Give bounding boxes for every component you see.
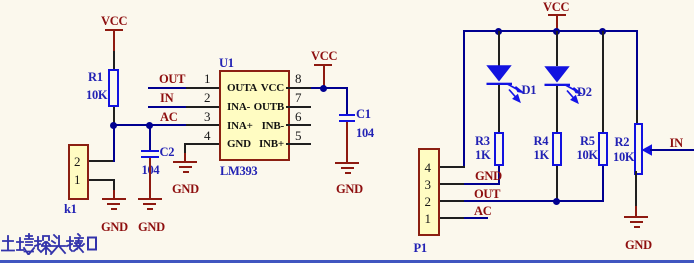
node junction rail/VCC/D2: [553, 28, 560, 35]
net label IN: [160, 92, 173, 105]
resistor R1: [108, 69, 119, 107]
LED D2: [542, 64, 574, 87]
wire rail to R5: [602, 31, 604, 132]
title text (Chinese) 土壤探头接口: [1, 233, 97, 255]
pin stub 6: [286, 124, 311, 126]
wire bus down to k1 pin2: [113, 126, 115, 162]
potentiometer R2: [634, 123, 643, 175]
net label GND (P1): [475, 170, 502, 183]
net label OUT: [159, 73, 185, 86]
pin number 5: [295, 129, 302, 142]
node junction rail/D1: [495, 28, 502, 35]
pin number 8: [295, 72, 302, 85]
power VCC (middle): [311, 50, 337, 63]
connector k1 body: [68, 144, 89, 200]
wire U1 pin8 to VCC and C1: [286, 87, 311, 89]
wire P1 pin2 OUT net: [440, 200, 464, 202]
node junction R4/OUT: [553, 198, 560, 205]
pin stub 7: [286, 106, 311, 108]
capacitor C1: [339, 114, 356, 116]
wire R3 bottom to GND net: [498, 166, 500, 184]
wire rail right drop to R2: [636, 30, 638, 110]
LED D1: [484, 63, 516, 86]
ground GND (U1 pin4): [173, 161, 197, 163]
resistor R4: [552, 132, 562, 166]
wire AC bus: [113, 124, 187, 126]
ground GND (C1): [335, 162, 359, 164]
ground GND (k1): [102, 198, 126, 200]
ground GND (R2): [624, 216, 648, 218]
wire R2 bottom to ground: [635, 171, 637, 206]
wire R4 bottom to OUT: [556, 166, 558, 201]
net label OUT (P1): [474, 188, 500, 201]
wire rail to D2: [556, 31, 558, 66]
power VCC (right): [543, 1, 569, 14]
wire P1 pin3 GND net: [440, 183, 464, 185]
wire R1 bottom: [113, 107, 115, 126]
wire R5 bottom to OUT: [602, 166, 604, 202]
wire IN to wiper: [650, 149, 694, 151]
wire C2 to ground: [149, 158, 151, 198]
wire OUT: [148, 87, 186, 89]
wire IN: [148, 106, 186, 108]
wire D2 to R4: [556, 86, 558, 134]
ground GND (C2): [138, 198, 162, 200]
wire VCC to R1: [113, 51, 115, 70]
wire rail left drop to P1 pin4: [463, 30, 465, 167]
node junction R1/bus: [110, 122, 117, 129]
pin number 4: [204, 129, 211, 142]
node junction C2/bus: [146, 122, 153, 129]
wiper arrow of R2: [641, 143, 655, 157]
node junction VCC/pin8: [320, 85, 327, 92]
wire rail to D1: [498, 31, 500, 66]
wire P1 pin4: [440, 166, 465, 168]
resistor R3: [494, 132, 504, 166]
resistor R5: [598, 132, 608, 166]
connector P1 body: [418, 148, 440, 235]
node junction rail/R5: [599, 28, 606, 35]
net label AC: [160, 111, 177, 124]
wire U1 pin4 to ground: [185, 143, 219, 145]
power VCC (left): [101, 15, 127, 28]
sheet border bottom: [0, 260, 694, 262]
pin number 6: [295, 110, 302, 123]
wire k1 pin1 to ground: [89, 179, 115, 181]
wire VCC rail: [463, 30, 638, 32]
pin number 7: [295, 91, 302, 104]
wire k1 pin2: [89, 160, 115, 162]
pin number 1: [204, 72, 211, 85]
pin stub 5: [286, 143, 311, 145]
pin number 2: [204, 91, 211, 104]
wire D1 to R3: [498, 85, 500, 133]
net label AC (P1): [474, 205, 491, 218]
net label IN (right): [670, 137, 683, 150]
pin number 3: [204, 110, 211, 123]
wire C1 to ground: [346, 122, 348, 162]
op-amp U1 LM393 body: [219, 70, 290, 161]
wire P1 pin1 AC net: [440, 217, 464, 219]
capacitor C2: [149, 126, 151, 150]
